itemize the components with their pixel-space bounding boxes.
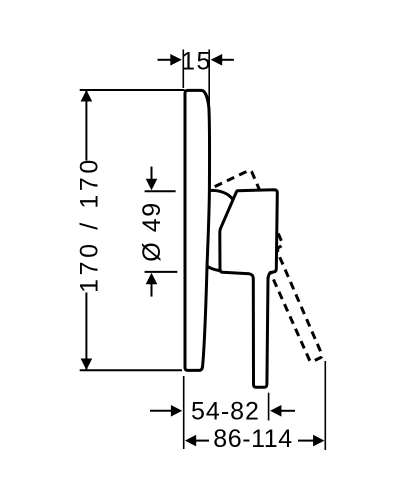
svg-text:Ø 49: Ø 49 bbox=[138, 201, 166, 262]
dim 15: left horizontal line bbox=[158, 59, 171, 61]
dim 15: right horizontal line bbox=[222, 59, 234, 61]
dashed handle outline (swivelled position) bbox=[214, 170, 332, 369]
dim 170/170: top extension line bbox=[80, 89, 185, 91]
dim d49: top arrowhead bbox=[146, 179, 158, 191]
dim 54-82: right horizontal line bbox=[281, 410, 295, 412]
dim d49: bottom arrowhead bbox=[146, 273, 158, 285]
dim 15: right extension line bbox=[208, 50, 210, 108]
dim 170/170: top arrowhead bbox=[81, 90, 93, 102]
dim 170/170: bottom arrowhead bbox=[81, 359, 93, 371]
dim 15: left arrowhead bbox=[170, 54, 182, 66]
dim 86-114: left arrowhead bbox=[185, 435, 196, 447]
svg-text:54-82: 54-82 bbox=[191, 398, 260, 426]
dim 86-114: right arrowhead bbox=[313, 435, 324, 447]
dim 170/170: bottom extension line bbox=[80, 369, 182, 371]
dim 54-82: right arrowhead bbox=[270, 405, 281, 417]
svg-text:15: 15 bbox=[181, 47, 212, 75]
dim 86-114: left arrow line bbox=[196, 440, 209, 442]
dim 170/170: vertical line upper segment bbox=[85, 90, 87, 161]
escutcheon dome / adapter sleeve bbox=[207, 190, 239, 270]
wall plate (escutcheon, side view) bbox=[185, 90, 209, 370]
dim 54-82: right extension line bbox=[268, 393, 270, 421]
dim 15: right arrowhead bbox=[211, 54, 223, 66]
handle body with lever (solid position) bbox=[220, 190, 277, 387]
dim 54-82: left horizontal line bbox=[150, 410, 171, 412]
dim 86-114: right arrow line bbox=[298, 440, 313, 442]
dim 54-82: left arrowhead bbox=[171, 405, 182, 417]
dim d49: top arrow line bbox=[151, 167, 153, 180]
svg-text:170 / 170: 170 / 170 bbox=[76, 156, 104, 293]
dim 170/170: vertical line lower segment bbox=[85, 293, 87, 371]
dim d49: bottom arrow line bbox=[151, 284, 153, 297]
dim d49: bottom extension line bbox=[145, 271, 178, 273]
dim 15: left extension line bbox=[182, 50, 184, 89]
svg-text:86-114: 86-114 bbox=[213, 425, 293, 453]
dim d49: top extension line bbox=[145, 190, 176, 192]
dim 54-82: left extension line (wall plane) bbox=[183, 376, 185, 449]
dim 86-114: right extension line bbox=[324, 361, 326, 450]
